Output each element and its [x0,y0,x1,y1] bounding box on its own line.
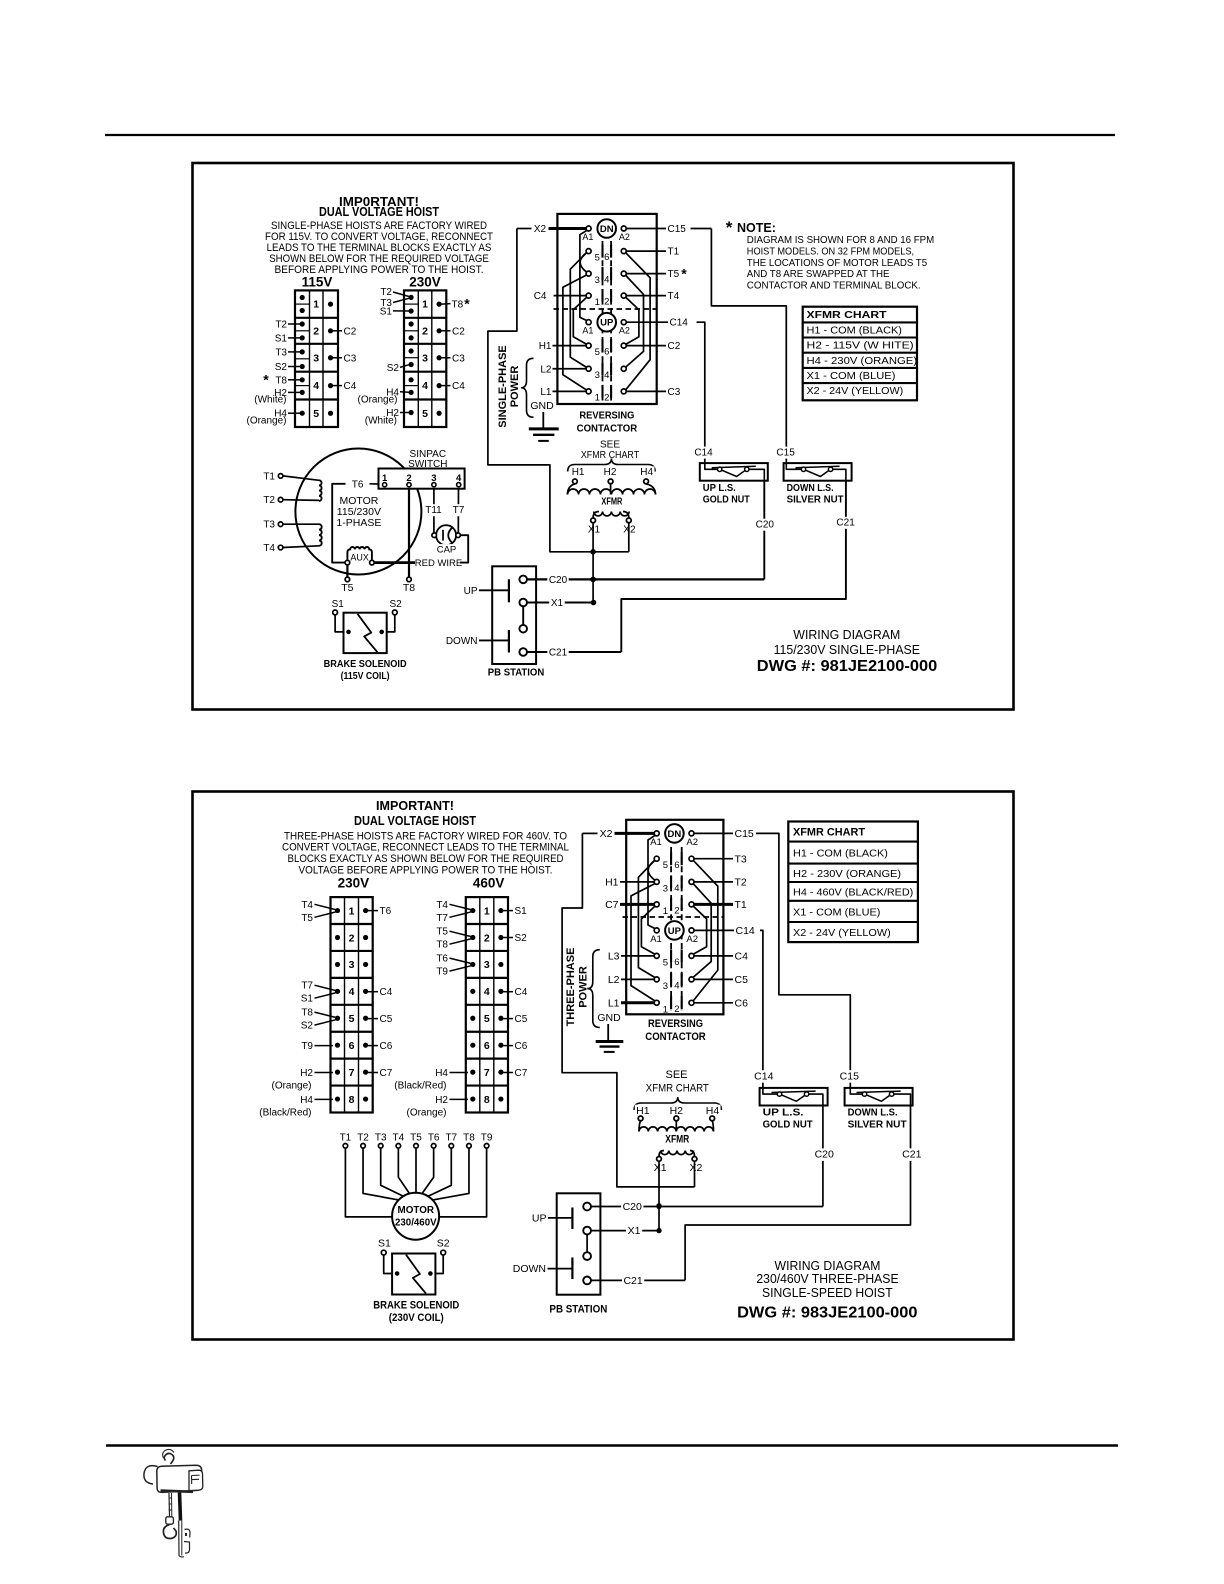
svg-text:DUAL VOLTAGE HOIST: DUAL VOLTAGE HOIST [354,813,476,828]
svg-text:T8: T8 [463,1133,475,1144]
svg-text:DN: DN [668,829,682,840]
svg-text:T6: T6 [352,479,364,490]
svg-text:CONTACTOR: CONTACTOR [645,1031,706,1043]
svg-text:(White): (White) [254,394,286,405]
svg-text:NOTE:: NOTE: [737,221,776,235]
svg-text:T8: T8 [301,1008,313,1019]
svg-text:X2: X2 [689,1162,702,1174]
svg-text:4: 4 [349,986,355,998]
svg-text:C4: C4 [515,987,528,998]
svg-text:C15: C15 [735,828,754,840]
svg-text:UP: UP [600,318,614,329]
svg-text:S2: S2 [389,599,402,610]
svg-text:1: 1 [313,299,319,311]
svg-text:6: 6 [604,347,609,358]
svg-text:3: 3 [595,370,600,381]
svg-text:H4 - 460V (BLACK/RED): H4 - 460V (BLACK/RED) [793,886,913,898]
svg-text:H4: H4 [300,1095,313,1106]
svg-text:X2 - 24V (YELLOW): X2 - 24V (YELLOW) [807,386,904,397]
svg-text:SILVER NUT: SILVER NUT [787,495,844,506]
svg-text:T5: T5 [436,927,448,938]
svg-text:T7: T7 [301,981,313,992]
svg-text:H1 - COM (BLACK): H1 - COM (BLACK) [793,848,888,860]
svg-text:T3: T3 [375,1133,387,1144]
svg-text:5: 5 [663,860,668,871]
svg-text:T5: T5 [341,582,353,594]
svg-text:H1: H1 [605,877,619,889]
svg-text:T4: T4 [668,291,680,302]
svg-text:C4: C4 [344,381,357,392]
svg-text:2: 2 [349,932,355,944]
svg-text:T3: T3 [735,853,747,865]
svg-text:C6: C6 [380,1041,393,1052]
svg-text:4: 4 [313,380,319,392]
svg-text:T4: T4 [436,900,448,911]
svg-text:1-PHASE: 1-PHASE [336,517,381,529]
svg-text:460V: 460V [473,876,505,891]
svg-text:DOWN: DOWN [446,636,478,647]
svg-text:SILVER NUT: SILVER NUT [848,1118,908,1130]
svg-text:CONVERT VOLTAGE, RECONNECT LEA: CONVERT VOLTAGE, RECONNECT LEADS TO THE … [282,842,569,854]
svg-text:DOWN: DOWN [513,1263,546,1275]
svg-text:L1: L1 [540,387,552,398]
svg-text:S2: S2 [515,933,528,944]
svg-text:H2: H2 [300,1068,313,1079]
svg-text:C5: C5 [735,974,749,986]
svg-text:(Black/Red): (Black/Red) [394,1080,446,1091]
svg-text:C15: C15 [668,224,687,235]
svg-text:(Orange): (Orange) [406,1107,446,1118]
svg-text:230V: 230V [409,275,441,290]
svg-text:*: * [263,372,269,388]
svg-text:T9: T9 [301,1041,313,1052]
svg-text:H4 - 230V (ORANGE): H4 - 230V (ORANGE) [807,356,918,367]
svg-text:T7: T7 [453,505,465,516]
svg-text:S1: S1 [275,333,288,344]
svg-text:3: 3 [663,883,668,894]
svg-text:C3: C3 [452,353,465,364]
svg-text:C5: C5 [380,1014,393,1025]
svg-text:T6: T6 [380,906,392,917]
svg-text:T9: T9 [436,967,448,978]
svg-text:T1: T1 [668,247,680,258]
svg-text:T8: T8 [452,299,464,310]
svg-text:H1: H1 [572,467,585,478]
svg-text:5: 5 [422,408,428,420]
svg-text:T1: T1 [340,1133,352,1144]
svg-text:VOLTAGE BEFORE APPLYING POWER: VOLTAGE BEFORE APPLYING POWER TO THE HOI… [299,865,553,877]
svg-text:H4: H4 [640,467,653,478]
svg-text:8: 8 [484,1094,490,1106]
svg-text:7: 7 [484,1067,490,1079]
svg-text:T8: T8 [275,375,287,386]
svg-text:C4: C4 [380,987,393,998]
svg-text:H2 - 115V (W HITE): H2 - 115V (W HITE) [807,341,914,352]
svg-text:C15: C15 [776,447,795,458]
svg-text:C20: C20 [756,520,775,531]
svg-text:*: * [464,295,470,311]
svg-text:(230V COIL): (230V COIL) [389,1312,444,1324]
svg-text:X2: X2 [534,224,547,235]
svg-text:C14: C14 [694,447,713,458]
svg-text:RED WIRE: RED WIRE [415,558,463,569]
svg-text:POWER: POWER [509,366,521,408]
svg-text:C4: C4 [534,291,547,302]
svg-text:(Orange): (Orange) [271,1080,311,1091]
svg-text:SEE: SEE [600,439,620,450]
svg-text:3: 3 [484,959,490,971]
svg-text:C3: C3 [668,387,681,398]
svg-text:X2 - 24V (YELLOW): X2 - 24V (YELLOW) [793,927,891,939]
svg-text:5: 5 [595,252,600,263]
svg-text:T5: T5 [301,913,313,924]
svg-text:SWITCH: SWITCH [408,459,447,470]
svg-text:DOWN L.S.: DOWN L.S. [787,483,834,494]
svg-text:X1: X1 [654,1162,667,1174]
svg-text:AUX: AUX [350,552,369,562]
svg-text:A1: A1 [582,232,593,242]
svg-text:X1 - COM (BLUE): X1 - COM (BLUE) [807,371,896,382]
svg-text:XFMR: XFMR [601,496,623,507]
svg-text:H4: H4 [435,1068,448,1079]
svg-text:3: 3 [313,352,319,364]
svg-text:H1: H1 [636,1105,650,1117]
svg-text:PB STATION: PB STATION [488,667,545,679]
svg-text:WIRING DIAGRAM: WIRING DIAGRAM [775,1259,881,1273]
svg-text:SINGLE-PHASE: SINGLE-PHASE [497,345,509,428]
svg-text:6: 6 [349,1040,355,1052]
svg-text:UP L.S.: UP L.S. [703,483,736,494]
svg-text:H2: H2 [670,1105,684,1117]
svg-text:GND: GND [597,1012,621,1024]
svg-text:S1: S1 [332,599,345,610]
svg-text:C20: C20 [623,1201,642,1213]
svg-text:4: 4 [604,370,609,381]
svg-text:THREE-PHASE HOISTS ARE FACTORY: THREE-PHASE HOISTS ARE FACTORY WIRED FOR… [284,830,567,842]
svg-text:DOWN L.S.: DOWN L.S. [848,1107,898,1119]
svg-text:4: 4 [674,883,679,894]
svg-text:1: 1 [663,906,668,917]
svg-text:115/230V SINGLE-PHASE: 115/230V SINGLE-PHASE [774,643,920,657]
svg-text:C21: C21 [836,518,855,529]
svg-text:C15: C15 [840,1070,859,1082]
svg-text:2: 2 [484,932,490,944]
svg-text:T2: T2 [263,495,275,506]
svg-text:C7: C7 [380,1068,393,1079]
svg-text:C2: C2 [668,341,681,352]
svg-text:S1: S1 [378,1237,391,1249]
svg-text:DWG #: 983JE2100-000: DWG #: 983JE2100-000 [737,1305,917,1322]
svg-text:POWER: POWER [578,966,590,1008]
svg-text:8: 8 [349,1094,355,1106]
svg-text:A2: A2 [686,934,698,945]
svg-text:X1: X1 [551,598,564,609]
svg-text:AND T8 ARE SWAPPED AT THE: AND T8 ARE SWAPPED AT THE [747,269,890,280]
svg-text:UP: UP [668,926,682,937]
svg-text:H2: H2 [435,1095,448,1106]
svg-text:C4: C4 [452,381,465,392]
svg-text:115V: 115V [302,275,333,290]
svg-text:T8: T8 [403,582,415,594]
svg-text:T2: T2 [357,1133,369,1144]
svg-text:C7: C7 [515,1068,528,1079]
svg-text:4: 4 [674,981,679,992]
svg-text:C20: C20 [815,1149,834,1161]
svg-text:DWG #: 981JE2100-000: DWG #: 981JE2100-000 [757,658,938,675]
svg-text:A2: A2 [686,837,698,848]
svg-text:A2: A2 [619,326,630,336]
svg-text:(115V COIL): (115V COIL) [341,670,390,682]
svg-text:PB STATION: PB STATION [549,1304,607,1316]
svg-text:T7: T7 [436,913,448,924]
svg-text:1: 1 [663,1004,668,1015]
svg-text:X2: X2 [600,828,613,840]
svg-text:6: 6 [674,957,679,968]
svg-text:(Black/Red): (Black/Red) [259,1107,311,1118]
svg-text:3: 3 [349,959,355,971]
svg-text:DN: DN [600,224,614,235]
svg-text:T1: T1 [263,471,275,482]
svg-text:T6: T6 [436,954,448,965]
svg-text:H2 - 230V (ORANGE): H2 - 230V (ORANGE) [793,868,901,880]
svg-text:7: 7 [349,1067,355,1079]
svg-text:S2: S2 [437,1237,450,1249]
svg-text:XFMR CHART: XFMR CHART [807,309,888,321]
svg-text:H2: H2 [604,467,617,478]
svg-text:T2: T2 [380,287,392,298]
svg-text:L2: L2 [608,974,620,986]
svg-text:230/460V: 230/460V [395,1216,437,1228]
svg-text:XFMR CHART: XFMR CHART [793,827,865,839]
svg-text:C21: C21 [902,1149,921,1161]
svg-text:*: * [681,266,687,282]
svg-text:BLOCKS EXACTLY AS SHOWN BELOW: BLOCKS EXACTLY AS SHOWN BELOW FOR THE RE… [288,853,564,865]
svg-text:1: 1 [484,905,490,917]
svg-text:H1 - COM (BLACK): H1 - COM (BLACK) [807,325,902,336]
svg-text:T3: T3 [275,347,287,358]
svg-text:X1: X1 [588,524,601,535]
svg-text:T4: T4 [393,1133,405,1144]
svg-text:1: 1 [595,297,600,308]
svg-text:XFMR CHART: XFMR CHART [581,450,639,461]
svg-text:UP L.S.: UP L.S. [763,1107,804,1119]
svg-text:S1: S1 [380,306,393,317]
svg-text:MOTOR: MOTOR [398,1204,435,1216]
svg-text:C14: C14 [736,925,755,937]
svg-text:L2: L2 [540,364,552,375]
svg-text:C2: C2 [344,326,357,337]
svg-text:5: 5 [313,408,319,420]
svg-text:4: 4 [484,986,490,998]
svg-text:T5: T5 [410,1133,422,1144]
svg-text:X1: X1 [628,1225,641,1237]
svg-text:3: 3 [663,981,668,992]
svg-text:H4: H4 [706,1105,720,1117]
svg-text:XFMR: XFMR [665,1134,689,1146]
svg-text:6: 6 [484,1040,490,1052]
svg-text:UP: UP [464,586,478,597]
svg-text:THE LOCATIONS OF MOTOR LEADS T: THE LOCATIONS OF MOTOR LEADS T5 [747,258,928,269]
svg-text:T1: T1 [735,899,747,911]
svg-text:WIRING DIAGRAM: WIRING DIAGRAM [793,628,900,642]
svg-text:IMPORTANT!: IMPORTANT! [376,798,454,813]
svg-text:T8: T8 [436,940,448,951]
svg-text:T7: T7 [445,1133,457,1144]
svg-text:SEE: SEE [665,1069,687,1081]
svg-text:*: * [726,218,733,237]
svg-text:DUAL VOLTAGE HOIST: DUAL VOLTAGE HOIST [319,204,439,219]
svg-text:C14: C14 [754,1070,773,1082]
svg-text:S1: S1 [301,994,314,1005]
svg-text:2: 2 [313,325,319,337]
svg-text:2: 2 [674,1004,679,1015]
svg-text:UP: UP [532,1212,547,1224]
svg-text:REVERSING: REVERSING [579,410,634,422]
svg-text:5: 5 [484,1013,490,1025]
svg-text:1: 1 [422,299,428,311]
svg-text:230V: 230V [338,876,370,891]
svg-text:(White): (White) [365,415,397,426]
svg-text:C6: C6 [735,997,749,1009]
svg-text:3: 3 [595,275,600,286]
svg-text:(Orange): (Orange) [357,394,397,405]
svg-text:T4: T4 [263,543,275,554]
svg-text:S2: S2 [301,1021,314,1032]
svg-text:6: 6 [674,860,679,871]
svg-text:CONTACTOR AND TERMINAL BLOCK.: CONTACTOR AND TERMINAL BLOCK. [747,280,921,291]
svg-text:6: 6 [604,252,609,263]
svg-text:THREE-PHASE: THREE-PHASE [565,948,577,1027]
svg-text:S2: S2 [275,362,288,373]
svg-text:C6: C6 [515,1041,528,1052]
svg-text:C2: C2 [452,326,465,337]
svg-text:GOLD NUT: GOLD NUT [763,1118,814,1130]
svg-text:L1: L1 [608,997,620,1009]
svg-text:T2: T2 [735,877,747,889]
svg-text:2: 2 [422,325,428,337]
svg-text:T3: T3 [263,520,275,531]
svg-text:GOLD NUT: GOLD NUT [703,495,750,506]
svg-text:CONTACTOR: CONTACTOR [577,423,638,435]
svg-text:DIAGRAM IS SHOWN FOR 8 AND 16: DIAGRAM IS SHOWN FOR 8 AND 16 FPM [747,235,934,246]
svg-text:T6: T6 [428,1133,440,1144]
svg-text:4: 4 [604,275,609,286]
svg-text:C21: C21 [623,1275,642,1287]
svg-text:2: 2 [604,393,609,404]
svg-text:1: 1 [595,393,600,404]
svg-text:A1: A1 [582,326,593,336]
svg-text:A2: A2 [619,232,630,242]
svg-text:5: 5 [349,1013,355,1025]
svg-text:C4: C4 [735,951,749,963]
svg-text:(Orange): (Orange) [246,415,286,426]
svg-text:T9: T9 [481,1133,493,1144]
svg-text:X1 - COM (BLUE): X1 - COM (BLUE) [793,906,880,918]
svg-text:SINGLE-SPEED HOIST: SINGLE-SPEED HOIST [762,1286,893,1300]
svg-text:HOIST MODELS. ON 32 FPM MODELS: HOIST MODELS. ON 32 FPM MODELS, [747,247,914,258]
svg-text:C14: C14 [670,318,689,329]
svg-text:GND: GND [530,400,554,412]
svg-text:2: 2 [604,297,609,308]
svg-text:C21: C21 [549,648,568,659]
svg-text:C7: C7 [605,899,619,911]
svg-text:H1: H1 [539,341,552,352]
svg-text:C3: C3 [344,353,357,364]
svg-text:4: 4 [422,380,428,392]
svg-text:1: 1 [349,905,355,917]
svg-text:2: 2 [674,906,679,917]
svg-text:T11: T11 [425,505,442,516]
svg-text:S2: S2 [387,363,400,374]
svg-text:BRAKE SOLENOID: BRAKE SOLENOID [324,658,407,670]
svg-text:5: 5 [663,957,668,968]
svg-text:BRAKE SOLENOID: BRAKE SOLENOID [373,1300,459,1312]
svg-text:S1: S1 [515,906,528,917]
svg-text:3: 3 [422,352,428,364]
svg-text:L3: L3 [608,951,620,963]
svg-text:5: 5 [595,347,600,358]
svg-text:T5: T5 [668,269,680,280]
svg-text:230/460V THREE-PHASE: 230/460V THREE-PHASE [756,1272,898,1286]
svg-text:T2: T2 [275,320,287,331]
svg-text:A1: A1 [650,837,662,848]
svg-text:T4: T4 [301,900,313,911]
svg-text:C20: C20 [549,575,568,586]
svg-text:XFMR CHART: XFMR CHART [646,1083,709,1095]
svg-text:CAP: CAP [437,545,457,556]
svg-text:REVERSING: REVERSING [648,1018,703,1030]
svg-text:A1: A1 [650,934,662,945]
svg-text:C5: C5 [515,1014,528,1025]
